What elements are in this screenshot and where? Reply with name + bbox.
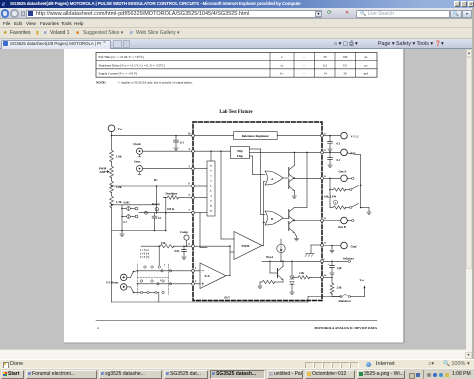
wire [111,161,113,166]
svg-text:4: 4 [97,326,99,330]
output totem pole B upper transistor [283,218,288,220]
ground [294,237,298,241]
resistor 2.0k to pin 10 [292,276,298,278]
bottom bus of jumper box [112,230,166,232]
ground [330,271,334,275]
svg-text:V/I Meter: V/I Meter [106,280,119,284]
jumper row 1 [121,208,123,210]
flip flop outputs [250,148,261,150]
ground [330,249,334,253]
vertical ramp branch [156,186,158,213]
matrix wires [127,276,131,278]
output totem pole A upper transistor [283,177,288,179]
svg-text:B: B [271,217,273,221]
svg-text:R: R [210,209,212,212]
svg-text:Clock: Clock [133,142,141,146]
svg-text:Flop: Flop [237,154,243,158]
EA output wire [226,275,230,277]
wire [111,192,113,196]
emitter resistor 2.0k [282,280,284,283]
ground [328,147,332,151]
svg-text:mA: mA [364,72,369,76]
wire clock into flip flop [193,150,231,152]
svg-text:14: 14 [323,72,327,76]
svg-text:1.5k: 1.5k [116,200,122,204]
wire rail continues to bottom bus [111,207,113,302]
wire RT to IC pin 6 [111,185,113,187]
switch matrix dashed rails [137,264,139,295]
error amp E.A. triangle [200,263,226,289]
jumper rail [121,205,123,231]
clamp diodes [291,261,293,276]
svg-text:2.0k: 2.0k [299,272,304,275]
svg-text:10k: 10k [161,241,166,245]
svg-text:0.001: 0.001 [124,202,131,205]
clamp transistor [270,272,278,274]
svg-text:Reference Regulator: Reference Regulator [242,134,270,138]
wire: VREF rail down [111,131,113,150]
svg-text:Gnd: Gnd [351,244,357,248]
wire pin16 into regulator [193,135,234,137]
resistor 10k [160,245,174,248]
bottom bus wire to shutdown [112,301,309,303]
svg-text:A: A [210,194,212,197]
svg-text:Sync: Sync [134,160,141,164]
svg-text:ADJ: ADJ [100,170,106,174]
vertical comp wire into matrix [158,245,160,247]
svg-text:–: – [302,55,305,59]
switch blade A [352,186,359,189]
svg-text:20: 20 [343,72,347,76]
wire osc bottom branch [199,213,201,248]
pot left lead down [165,198,167,213]
svg-text:0.1: 0.1 [180,141,184,145]
BNC V/I meter A [121,274,127,280]
svg-text:100: 100 [343,55,348,59]
wire regulator to pin15 [277,135,322,137]
emitter to ground A [293,191,295,195]
svg-text:0.5: 0.5 [343,63,347,67]
PWM comparator triangle [234,232,262,260]
wire clock to IC pin 4 [143,150,193,152]
current source 50uA [277,244,285,252]
footer rule [96,320,377,322]
svg-text:Out A: Out A [339,169,348,173]
svg-text:1 = VCO: 1 = VCO [140,249,150,252]
svg-text:–: – [302,63,305,67]
svg-text:O: O [210,204,212,207]
svg-text:E.A.: E.A. [205,274,211,278]
pin Gnd [322,245,340,247]
pin terminals right edge [321,134,324,137]
PWM output to NOR gates [262,245,264,247]
ground [174,146,178,150]
ground for load [361,207,369,209]
oscillator block [207,161,215,216]
reference regulator block [234,132,278,140]
svg-text:2.0k: 2.0k [337,287,342,290]
jumper row 2 [121,216,123,218]
svg-text:V C C: V C C [351,134,359,138]
svg-text:1.0k: 1.0k [116,155,122,159]
resistor 1.5k (bottom) [110,196,114,208]
NOR gate A [265,171,283,185]
svg-text:Flip: Flip [237,149,243,153]
vertical wire from clock to PWM [220,151,222,239]
BNC V/I meter B [121,284,127,290]
VC internal rail [306,152,308,207]
matrix contact circles [144,266,146,268]
ground under totem B [294,233,296,237]
load B resistor [329,190,331,208]
svg-text:C: C [210,174,212,177]
wire pin16 VREF to IC [111,135,113,137]
capacitor 0.01 w/ ground [183,246,185,249]
IC boundary dashed box [193,122,322,301]
output totem pole B lower transistor [288,222,290,231]
out B node wire to pin 14 [294,220,296,222]
svg-text:Supply Current (VCC = +35 V): Supply Current (VCC = +35 V) [99,72,138,76]
wire [111,177,113,181]
svg-text:OUT: OUT [224,297,230,300]
jumper box top bus [112,204,157,206]
capacitor 0.1 on VC [329,152,331,154]
svg-text:O: O [210,164,212,167]
svg-text:50 μA: 50 μA [266,256,273,259]
shutdown network [322,276,332,278]
ground [328,163,332,167]
wire osc to clock line [210,151,212,161]
ground [292,194,296,198]
pin terminals left edge [192,134,195,137]
svg-text:Softstart: Softstart [343,256,354,260]
svg-text:0.2: 0.2 [323,63,327,67]
PWM second input [230,251,234,253]
wire to Vref arrow [351,296,365,298]
ground at Gnd pin [331,245,333,247]
svg-text:Comp: Comp [180,230,188,234]
pin VC [322,151,340,153]
ground [182,255,186,259]
table: electrical characteristics rows [96,53,377,78]
osc input wires [193,168,207,170]
pin Out B [322,220,340,222]
svg-text:100 Ω: 100 Ω [167,208,175,211]
svg-text:PWM: PWM [242,244,250,248]
out A node wire to pin 11 [294,178,296,180]
svg-text:Lab Test Fixture: Lab Test Fixture [219,110,252,115]
svg-text:Deadtime: Deadtime [166,192,178,195]
wire VC to load rail [347,153,361,155]
capacitor 0.1 ramp [154,213,156,217]
chassis ground hatched [305,254,314,257]
NOR gate B [265,211,283,225]
soft start internal rail [262,260,322,262]
svg-text:I: I [211,179,212,182]
svg-text:50: 50 [323,55,327,59]
capacitor 0.1 on VCC [329,135,331,137]
circled 2 symbol [333,200,337,204]
svg-text:0.01: 0.01 [175,249,181,253]
wire VC rail top [250,151,323,153]
wire comp to IC pin 9 [141,245,160,247]
flip flop block [231,147,250,159]
svg-text:Out B: Out B [338,225,346,229]
pin VCC [322,135,340,137]
collector wire to VC rail [293,152,295,165]
internal gnd wire pin 12 [311,244,322,246]
wire sync to IC pin 3 [143,168,193,170]
resistor 1.0k (top) [110,150,114,162]
load A resistor 1.0k 1.0W [329,178,331,180]
ground [120,232,124,236]
capacitor 1uF [331,261,333,263]
ground [367,210,371,214]
pin VREF connector [108,125,115,132]
ground [258,284,262,288]
svg-text:1 μF: 1 μF [337,266,343,270]
wires matrix to error amp inputs [138,270,201,272]
svg-text:1.0k: 1.0k [116,185,122,189]
wire to pin 7 [139,212,193,214]
svg-text:MOTOROLA ANALOG IC DEVICE DATA: MOTOROLA ANALOG IC DEVICE DATA [314,326,377,330]
svg-text:Ramp: Ramp [152,202,160,206]
svg-text:3 = I (+): 3 = I (+) [140,256,149,259]
svg-text:0.1: 0.1 [337,142,341,146]
svg-text:NOTE:: NOTE: [96,81,106,85]
potentiometer PWM ADJ [110,166,114,178]
capacitor 0.1 on VREF line [175,136,177,141]
white datasheet page [64,49,404,343]
svg-text:2 = I (–): 2 = I (–) [140,253,149,256]
svg-text:0.1: 0.1 [337,158,341,162]
svg-text:–: – [302,72,305,76]
svg-text:V C: V C [351,151,356,155]
resistor 1.0k (mid) [110,181,114,193]
ground [290,290,294,294]
svg-text:Shutdown: Shutdown [339,300,352,303]
ground below jumper box [121,231,123,233]
output totem pole A lower transistor [288,180,290,189]
